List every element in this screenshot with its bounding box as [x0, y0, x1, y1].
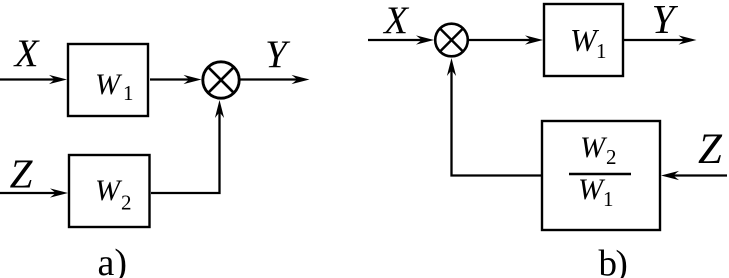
svg-text:1: 1 — [603, 187, 614, 211]
wire W2 to summer — [151, 100, 224, 193]
svg-text:W: W — [95, 174, 123, 207]
block W1 — [68, 44, 148, 116]
wire summer to W1 b — [468, 35, 543, 44]
svg-text:2: 2 — [606, 145, 617, 169]
svg-text:W: W — [578, 173, 606, 206]
label W1 b — [570, 22, 607, 63]
svg-text:2: 2 — [121, 191, 132, 215]
wire summer to Y — [240, 75, 310, 84]
svg-text:Z: Z — [10, 151, 34, 197]
block W2 — [69, 155, 150, 227]
svg-text:W: W — [95, 68, 123, 101]
block W2/W1 b — [542, 121, 660, 230]
node X — [13, 32, 41, 75]
svg-text:1: 1 — [123, 81, 134, 105]
svg-text:Y: Y — [652, 0, 679, 42]
node Z b — [698, 126, 723, 173]
block W1 b — [544, 4, 623, 76]
label b) — [599, 244, 627, 278]
node Z — [10, 151, 34, 197]
svg-text:X: X — [382, 0, 410, 42]
svg-text:a): a) — [98, 242, 128, 278]
wire W1 to Y b — [624, 35, 697, 44]
label W1 — [95, 68, 134, 105]
node Y b — [652, 0, 679, 42]
label W2 numerator — [580, 131, 617, 169]
wire X to W1 — [0, 75, 67, 84]
wire Z to block b — [661, 171, 727, 180]
svg-text:Y: Y — [265, 33, 291, 76]
summing junction a — [203, 62, 239, 98]
wire Z to W2 — [0, 188, 68, 197]
label W1 denominator — [578, 173, 614, 211]
node X b — [382, 0, 410, 42]
wire W1 to summer — [150, 75, 202, 84]
svg-text:1: 1 — [596, 39, 607, 63]
summing junction b — [435, 24, 468, 57]
svg-text:Z: Z — [698, 126, 723, 173]
svg-text:b): b) — [599, 244, 627, 278]
node Y — [265, 33, 291, 76]
svg-text:X: X — [13, 32, 41, 75]
wire X to summer b — [368, 35, 434, 44]
fraction bar — [569, 173, 631, 175]
svg-text:W: W — [580, 131, 608, 164]
label a) — [98, 242, 128, 278]
wire feedback b — [447, 58, 541, 176]
label W2 — [95, 174, 132, 215]
